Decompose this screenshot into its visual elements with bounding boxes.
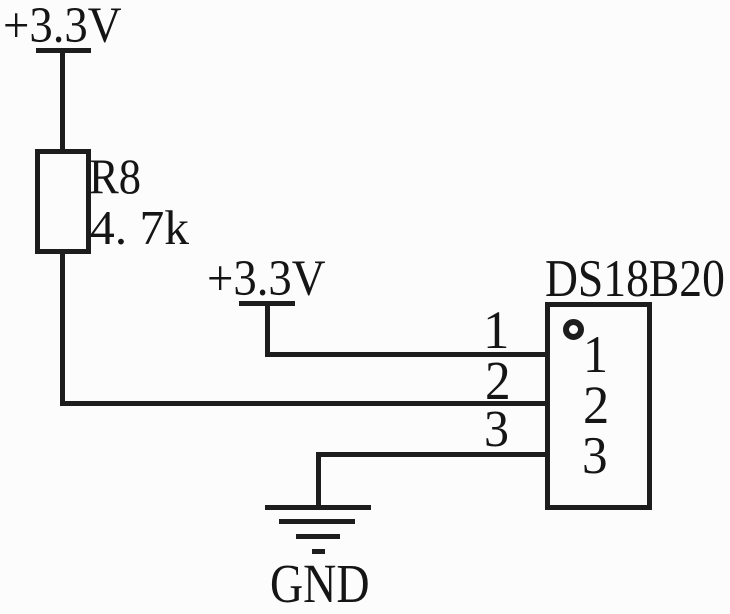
pin number 3 (wire label) xyxy=(484,404,509,456)
wire: horizontal DQ net from corner to DS18B20 pin 2 xyxy=(60,401,550,406)
power +3.3V label (left) xyxy=(3,0,122,51)
pin number 2 (wire label) xyxy=(485,353,511,408)
wire: vertical down to ground symbol xyxy=(316,452,321,506)
resistor R8 designator label xyxy=(89,152,141,201)
wire from left +3.3V rail to resistor R8 top xyxy=(60,50,65,150)
DS18B20 part label xyxy=(545,253,725,306)
pin 1 label inside DS18B20 xyxy=(583,329,608,382)
power +3.3V label (middle) xyxy=(207,253,326,304)
pin-1 polarity dot xyxy=(563,319,584,340)
wire from resistor R8 bottom down to DQ net corner xyxy=(60,250,65,406)
wire from middle +3.3V rail down xyxy=(265,303,270,357)
wire: horizontal VDD net to DS18B20 pin 1 xyxy=(265,352,550,357)
pin 2 label inside DS18B20 xyxy=(583,379,609,433)
ground label GND xyxy=(270,556,370,611)
resistor R8 value label 4.7k xyxy=(90,204,189,253)
resistor R8 xyxy=(35,149,91,254)
power rail bar (middle +3.3V) xyxy=(239,301,295,306)
pin number 1 (wire label) xyxy=(483,303,509,358)
connector U1 DS18B20 body xyxy=(545,302,652,510)
ground xyxy=(0,0,1,1)
power rail bar (left +3.3V) xyxy=(36,48,91,53)
wire: horizontal GND net from DS18B20 pin 3 xyxy=(316,452,550,457)
pin 3 label inside DS18B20 xyxy=(582,430,608,483)
